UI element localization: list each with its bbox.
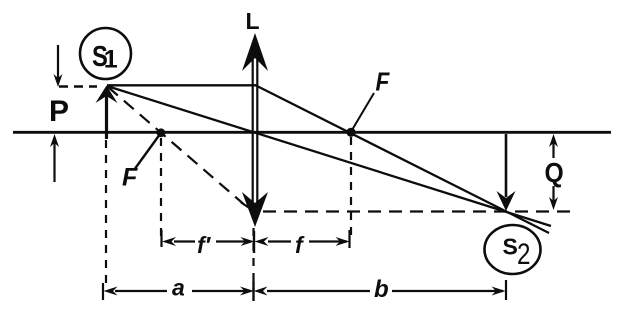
label F' — [122, 164, 138, 192]
label L — [246, 8, 260, 34]
source circle S1 — [80, 28, 131, 79]
svg-text:F: F — [122, 164, 138, 192]
svg-text:F: F — [376, 68, 391, 97]
optical axis — [13, 131, 611, 134]
f dimension — [255, 230, 350, 248]
lens top arrowhead — [242, 33, 268, 71]
label S2 — [503, 234, 531, 271]
focal point F dot — [346, 128, 355, 137]
label P — [49, 95, 69, 128]
label f — [295, 232, 305, 258]
label Q — [545, 157, 564, 189]
a dimension — [103, 281, 254, 301]
svg-text:1: 1 — [104, 46, 118, 74]
label a — [172, 275, 185, 301]
label f' — [197, 232, 212, 258]
Q dimension bottom arrow (down) — [549, 186, 558, 210]
label S1 — [92, 40, 118, 74]
central ray through lens centre — [107, 86, 551, 226]
dashed ray through F' to lens bottom — [108, 87, 252, 211]
dashed vertical below lens — [252, 228, 254, 290]
dashed image-level line — [263, 210, 571, 212]
svg-text:f: f — [295, 232, 305, 258]
focal point F' dot — [157, 128, 166, 137]
dashed vertical from object foot — [105, 140, 107, 288]
f' dimension — [162, 230, 255, 253]
F' pointer line — [134, 136, 159, 171]
F pointer line — [352, 93, 374, 130]
svg-text:S: S — [503, 234, 518, 260]
lens bottom arrowhead — [242, 192, 268, 227]
b dimension — [254, 280, 507, 300]
image arrow (downward) at S2 — [497, 134, 516, 211]
svg-text:f′: f′ — [197, 232, 212, 258]
label F — [376, 68, 391, 97]
refracted ray through F to image — [255, 85, 549, 233]
dashed vertical below F — [350, 137, 352, 238]
horizontal ray from object tip to lens — [107, 84, 256, 86]
dashed vertical below F' — [160, 138, 162, 238]
object arrow P (upward) — [96, 86, 118, 140]
dashed object-height level line — [59, 85, 97, 87]
image circle S2 — [485, 225, 541, 274]
svg-text:Q: Q — [545, 157, 564, 189]
svg-text:2: 2 — [517, 238, 530, 271]
P dimension bottom arrow (up) — [50, 134, 59, 182]
Q dimension top arrow (up) — [549, 134, 558, 158]
svg-text:a: a — [172, 275, 185, 301]
lens L shaft — [253, 46, 258, 207]
P dimension top arrow (down) — [54, 45, 63, 87]
label b — [374, 276, 389, 303]
svg-text:P: P — [49, 95, 69, 128]
svg-text:b: b — [374, 276, 389, 303]
svg-text:L: L — [246, 8, 260, 34]
